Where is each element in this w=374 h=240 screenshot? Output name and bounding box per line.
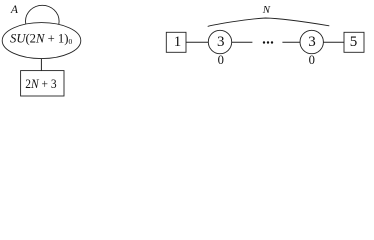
wire ellipse to flavor box [40, 59, 42, 71]
gauge node 3 (right) [300, 30, 323, 53]
svg-text:N: N [262, 4, 271, 16]
svg-text:0: 0 [309, 53, 315, 67]
svg-text:A: A [10, 3, 19, 16]
svg-text:0: 0 [218, 53, 224, 67]
flavor box 2N+3 [21, 71, 64, 96]
gauge node SU(2N+1)_0 [2, 23, 81, 59]
flavor box 1 [166, 32, 186, 52]
svg-text:5: 5 [350, 34, 358, 50]
gauge node 3 (left) [208, 30, 231, 53]
overbrace N [208, 18, 330, 26]
flavor box 5 [344, 32, 364, 52]
svg-text:SU(2N + 1)0: SU(2N + 1)0 [10, 31, 72, 46]
svg-text:3: 3 [308, 34, 316, 50]
adjoint loop A on SU node [26, 5, 60, 37]
wire circle1 to dots [232, 41, 253, 43]
wire box1 to circle1 [186, 41, 208, 43]
svg-text:2N + 3: 2N + 3 [25, 77, 56, 91]
svg-text:1: 1 [174, 34, 182, 50]
svg-text:3: 3 [217, 34, 225, 50]
wire dots to circle2 [282, 41, 300, 43]
wire circle2 to box5 [323, 41, 344, 43]
dots [263, 41, 273, 43]
